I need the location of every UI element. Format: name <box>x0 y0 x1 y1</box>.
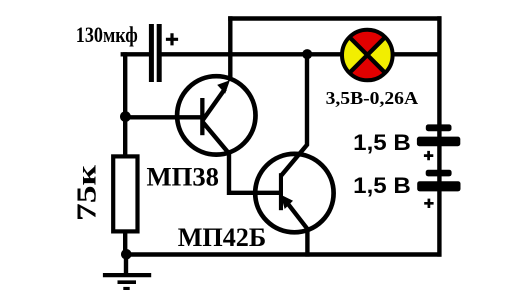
Q2 collector line up to lamp-wire junction <box>281 56 307 176</box>
wire: Q2 emitter down to bottom rail <box>305 228 309 257</box>
label: capacitor + polarity <box>166 33 178 45</box>
svg-text:МП42Б: МП42Б <box>178 222 267 252</box>
node: junction lamp wire / Q2 collector <box>302 49 312 59</box>
Q2 emitter line with arrow (points to base, PNP) <box>281 195 308 229</box>
wire: top-left horizontal to capacitor C1 left plate <box>121 52 150 56</box>
svg-text:1,5 В: 1,5 В <box>353 130 411 155</box>
label: cell 1 + polarity <box>424 151 433 160</box>
Q1 emitter line with arrow (to top rail) <box>203 80 230 120</box>
ground <box>103 254 151 289</box>
battery GB1 cell 2 plates <box>417 170 460 192</box>
wire: bottom rail <box>124 252 441 256</box>
wire: C1 right plate to junction / lamp / right rail <box>161 52 442 56</box>
wire: Q1 base wire from left-rail junction <box>124 115 203 119</box>
battery GB1 cell 1 plates <box>417 124 460 146</box>
svg-text:МП38: МП38 <box>147 161 220 191</box>
svg-text:130мкф: 130мкф <box>76 22 138 47</box>
lamp HL1 <box>342 30 393 81</box>
Q1 collector line down to Q2 base wire <box>203 122 282 193</box>
wire: left rail (C1 left plate / R1 top node down to ground rail) <box>123 52 127 256</box>
wire: top rail <box>228 16 441 20</box>
label: cell 2 + polarity <box>424 199 433 208</box>
node: junction left rail / Q1 base / R1 <box>120 111 131 122</box>
svg-text:75к: 75к <box>71 164 101 221</box>
Q2 base bar <box>279 173 283 210</box>
transistor Q1 МП38 circle <box>177 76 255 154</box>
svg-text:1,5 В: 1,5 В <box>353 173 411 198</box>
wire: right rail through battery GB1 <box>437 16 441 256</box>
capacitor C1 plates (130мкф) <box>149 24 162 82</box>
transistor Q2 МП42Б circle <box>255 154 333 232</box>
node: junction bottom rail / ground / R1 <box>121 249 132 260</box>
svg-text:3,5В-0,26А: 3,5В-0,26А <box>326 88 419 108</box>
resistor R1 body <box>113 156 137 231</box>
wire: top rail down to Q1 emitter arrow <box>228 16 232 81</box>
Q1 base bar <box>200 98 204 135</box>
